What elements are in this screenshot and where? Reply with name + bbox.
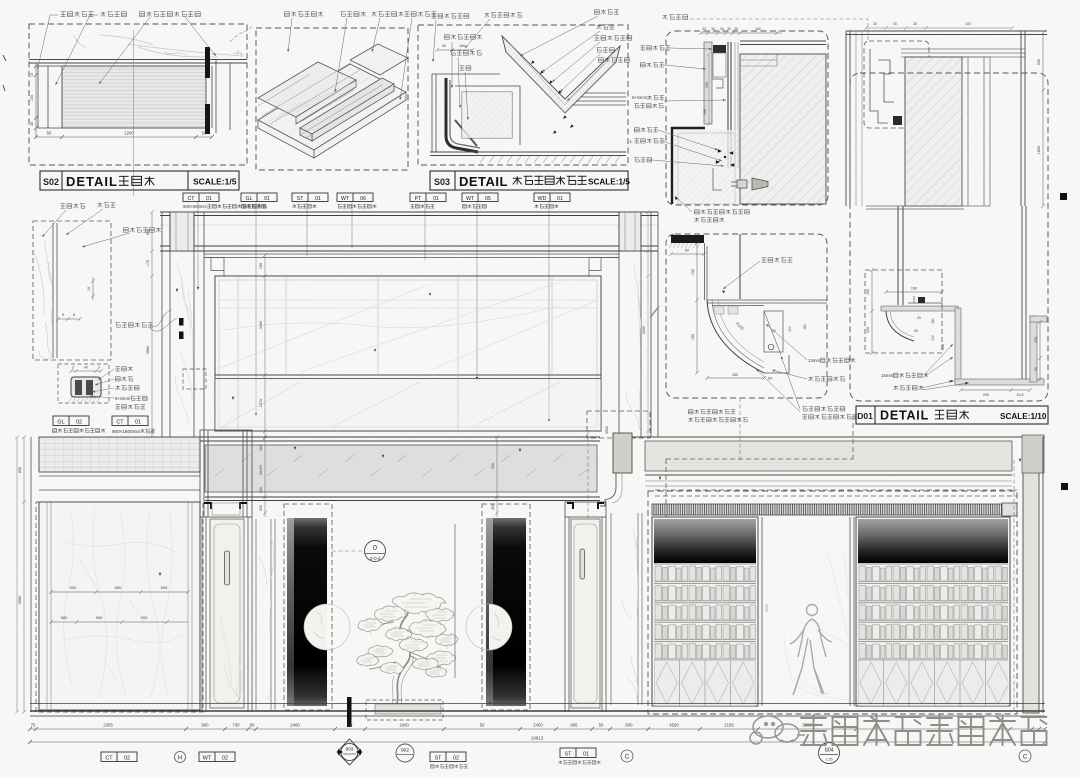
- svg-text:PT: PT: [415, 196, 422, 202]
- svg-text:S04: S04: [825, 748, 834, 754]
- S02 bottom dim line: [34, 135, 214, 139]
- svg-text:SCALE:1/5: SCALE:1/5: [193, 177, 237, 187]
- svg-text:100: 100: [755, 27, 761, 31]
- detail B wall hatch: [905, 57, 962, 206]
- detail A bottom-left arrow: [675, 196, 678, 200]
- detail B top lines: [846, 31, 1047, 35]
- svg-text:900: 900: [141, 615, 148, 620]
- svg-text:30: 30: [720, 27, 724, 31]
- svg-text:01: 01: [315, 196, 321, 202]
- left marble wall dims: [49, 590, 190, 594]
- svg-text:30: 30: [893, 22, 897, 26]
- section cut bar: [347, 697, 352, 727]
- svg-text:300: 300: [491, 463, 495, 469]
- glass channel hatch below: [69, 397, 100, 402]
- S03 label b: [485, 13, 522, 18]
- svg-text:CT: CT: [188, 196, 196, 202]
- svg-text:50: 50: [47, 131, 52, 136]
- bottom dim row 2: [28, 740, 1047, 744]
- D01L wall joint line: [739, 234, 741, 299]
- S03 label concrete: [599, 58, 630, 63]
- elevation right pilaster: [619, 212, 658, 437]
- svg-text:2450: 2450: [533, 723, 543, 728]
- svg-text:100: 100: [788, 326, 792, 332]
- beam dim chain: [263, 435, 267, 517]
- D01R shelf band: [881, 306, 958, 311]
- svg-text:900: 900: [201, 723, 209, 728]
- isometric slab main: [258, 64, 406, 158]
- svg-text:WT: WT: [466, 196, 475, 202]
- S03 label waterproof: [445, 35, 482, 40]
- detail A screws: [718, 149, 722, 152]
- tag GL01: [241, 193, 277, 202]
- detail B right column: [962, 57, 990, 206]
- S02 ceiling double line: [29, 60, 247, 64]
- svg-text:150: 150: [691, 269, 695, 275]
- svg-text:100: 100: [931, 335, 935, 341]
- elevation lower stone band: [215, 379, 601, 432]
- detail A glass lines: [728, 42, 731, 168]
- svg-text:180: 180: [803, 324, 807, 330]
- D01L label wood keel: [762, 258, 793, 263]
- elevation left dim chain: [150, 210, 154, 437]
- tag WT02: [199, 752, 235, 762]
- D01R vertical band: [955, 308, 961, 382]
- S03 label mortar: [595, 36, 632, 41]
- S02 label dark stone honed: [140, 12, 201, 17]
- svg-text:WT: WT: [341, 196, 350, 202]
- door2 handle: [580, 549, 585, 579]
- detail B right wall lines: [1021, 31, 1025, 206]
- svg-text:19613: 19613: [531, 736, 544, 741]
- iso label 3: [372, 12, 404, 17]
- elevation left pilaster: [162, 212, 204, 437]
- svg-text:180: 180: [931, 318, 935, 324]
- marker S04: [819, 743, 840, 764]
- svg-text:60: 60: [768, 377, 772, 381]
- D01L small hatch boxes: [714, 306, 738, 314]
- svg-text:600: 600: [146, 229, 150, 235]
- tag WT06: [337, 193, 373, 202]
- detail A top dim: [699, 31, 782, 35]
- svg-text:d-O-d: d-O-d: [370, 556, 381, 561]
- svg-text:02: 02: [222, 756, 228, 762]
- axis marker circle: [365, 541, 386, 562]
- bookshelf2 books: [858, 563, 1008, 660]
- elevation left pilaster cap: [170, 212, 194, 251]
- svg-text:50: 50: [348, 723, 353, 728]
- tag PT01 subtitle: [410, 204, 434, 208]
- svg-text:600: 600: [18, 467, 22, 473]
- detail A wall hatch: [740, 54, 826, 204]
- marker C left: [621, 750, 633, 762]
- person silhouette: [790, 605, 832, 696]
- svg-text:280: 280: [259, 445, 263, 451]
- tag PT01: [410, 193, 446, 202]
- detail B ceiling band: [901, 49, 1025, 57]
- S02 label light-grey stone: [61, 12, 94, 17]
- bottom dim row 1: [28, 727, 1047, 731]
- isometric surface hatch: [266, 77, 370, 123]
- D01L pencil mark: [650, 306, 659, 318]
- elevation joints: [238, 276, 552, 431]
- iso label 2: [341, 12, 366, 17]
- right top band lines: [645, 441, 1012, 471]
- S02 right jamb lines: [212, 60, 230, 133]
- right end wall: [1023, 437, 1039, 713]
- elevation section bars: [179, 318, 184, 326]
- svg-text:50: 50: [480, 723, 485, 728]
- D01L step bottom: [764, 355, 789, 373]
- svg-text:3460: 3460: [259, 321, 263, 329]
- glass channel top dim: [69, 369, 103, 373]
- svg-text:0: 0: [373, 545, 377, 552]
- svg-text:L: L: [630, 139, 633, 144]
- svg-text:05: 05: [485, 196, 491, 202]
- dark panel1: [287, 518, 327, 706]
- svg-text:10: 10: [87, 287, 91, 291]
- D01R inner dashed box: [865, 270, 942, 353]
- svg-text:3580: 3580: [18, 596, 22, 604]
- door2 panel: [571, 519, 600, 708]
- detail A step lines: [712, 79, 723, 88]
- S03 top dim: [435, 48, 474, 52]
- tag leader lines: [198, 202, 549, 418]
- wall detail dim 9 8: [56, 317, 82, 321]
- wall detail sketch: [34, 241, 53, 359]
- dark panel2: [486, 518, 526, 706]
- S03 label a: [432, 14, 469, 19]
- bookshelf1 doors: [654, 660, 756, 706]
- svg-text:30: 30: [727, 27, 731, 31]
- svg-text:1070: 1070: [259, 399, 263, 407]
- tag WT05: [462, 193, 498, 202]
- watermark logo: [750, 716, 805, 744]
- svg-text:190: 190: [911, 287, 917, 291]
- D01R right wall line: [1022, 206, 1026, 379]
- svg-text:4590: 4590: [669, 723, 679, 728]
- thin wall line: [454, 524, 456, 678]
- svg-text:900×900mm: 900×900mm: [183, 204, 207, 209]
- svg-text:3500: 3500: [605, 426, 609, 434]
- moon circle 2: [489, 604, 512, 650]
- svg-text:01: 01: [433, 196, 439, 202]
- svg-text:150: 150: [866, 289, 870, 295]
- elevation cornice step right: [589, 258, 619, 277]
- svg-text:1:25: 1:25: [826, 758, 833, 762]
- svg-text:50: 50: [202, 131, 207, 136]
- svg-text:100: 100: [866, 327, 870, 333]
- left outer dim chain: [22, 435, 26, 714]
- beam arrows: [294, 447, 297, 450]
- svg-text:6+6mm: 6+6mm: [115, 396, 131, 401]
- elevation right pilaster cap: [619, 212, 641, 251]
- wall detail label thin tile: [124, 228, 161, 233]
- svg-text:2460: 2460: [290, 723, 300, 728]
- elevation marble sketch on wall: [218, 282, 598, 372]
- S03 pool inner hatch: [462, 92, 512, 138]
- glass channel labels: [115, 367, 132, 371]
- floor lines: [30, 704, 1045, 717]
- right dashed zone: [655, 415, 1017, 517]
- svg-text:SCALE:1/5: SCALE:1/5: [588, 178, 630, 187]
- elevation dashed box: [183, 369, 206, 389]
- svg-text:900: 900: [96, 615, 103, 620]
- wall detail dim 10: [91, 277, 95, 300]
- elevation dim col right: [646, 210, 650, 437]
- svg-text:S03: S03: [434, 177, 450, 187]
- svg-text:3000: 3000: [642, 326, 646, 334]
- svg-text:C: C: [625, 755, 630, 761]
- svg-text:690: 690: [161, 585, 168, 590]
- tag ST01: [292, 193, 328, 202]
- tag CT01: [183, 193, 219, 202]
- svg-text:1200: 1200: [124, 131, 134, 136]
- D01R right niche bands: [1030, 316, 1037, 382]
- detail S03 dashed border: [418, 25, 628, 165]
- svg-text:330: 330: [259, 505, 263, 511]
- svg-text:150: 150: [732, 373, 738, 377]
- svg-text:900×1800mm: 900×1800mm: [112, 429, 140, 434]
- glass channel glass blobs: [75, 380, 82, 395]
- pine tree: [369, 604, 446, 707]
- detail A dashed rounded border: [666, 31, 828, 205]
- elevation cornice step left: [204, 258, 224, 277]
- svg-text:60: 60: [914, 329, 918, 333]
- svg-text:DETAIL: DETAIL: [66, 174, 118, 189]
- cornice section shape: [613, 433, 632, 473]
- svg-text:90: 90: [250, 723, 255, 728]
- svg-text:160: 160: [459, 44, 465, 48]
- svg-text:50: 50: [599, 723, 604, 728]
- svg-text:500: 500: [1037, 59, 1041, 65]
- glass channel dashed box: [58, 364, 109, 403]
- S03 label floor heating: [460, 66, 471, 71]
- elevation inner dim chain: [263, 253, 267, 440]
- title bar S03: [430, 171, 628, 190]
- svg-text:8: 8: [73, 313, 75, 317]
- svg-text:6+6mm: 6+6mm: [632, 95, 648, 100]
- bookshelf2 frame: [856, 517, 1010, 706]
- detail A L bracket: [713, 168, 722, 190]
- svg-text:26400: 26400: [259, 465, 263, 475]
- bookshelf1 frame: [652, 517, 758, 706]
- svg-text:C: C: [1023, 755, 1028, 761]
- detail B inner dashed box: [864, 41, 929, 128]
- svg-text:30: 30: [734, 27, 738, 31]
- S03 trench arrows: [531, 60, 535, 64]
- isometric top small slab: [350, 44, 408, 75]
- S02 stone panel: [62, 66, 206, 128]
- D01L hanger lines: [705, 243, 708, 300]
- left marble wall: [39, 502, 200, 710]
- S03 base hatch marks: [480, 156, 620, 163]
- D01R wall studs: [898, 206, 903, 305]
- svg-text:DETAIL: DETAIL: [880, 409, 929, 423]
- D01R cove arcs: [886, 311, 914, 341]
- svg-text:30: 30: [702, 27, 706, 31]
- elevation dashed box right: [587, 411, 650, 438]
- isometric slab upper: [258, 62, 356, 124]
- svg-text:ST: ST: [565, 752, 573, 758]
- left pilaster cap bottom: [200, 430, 252, 517]
- S03 waterproof membrane thick: [446, 78, 478, 152]
- marker 902: [396, 744, 414, 762]
- D01L label white paint: [802, 407, 844, 411]
- beam dim chain 2: [495, 435, 499, 517]
- svg-text:150: 150: [1034, 337, 1038, 343]
- title bar S02: [40, 171, 239, 190]
- svg-text:200: 200: [941, 344, 945, 350]
- svg-text:SCALE:1/10: SCALE:1/10: [1000, 412, 1047, 421]
- svg-text:15mm: 15mm: [881, 373, 894, 378]
- threshold dashed box: [366, 700, 443, 720]
- left pilaster brackets: [204, 503, 247, 509]
- svg-text:150: 150: [705, 82, 709, 88]
- detail A silicone label: [663, 15, 688, 20]
- stone strip left of dark panel: [256, 519, 275, 710]
- left wall dashed border: [36, 502, 203, 712]
- stone strip right: [611, 513, 642, 705]
- svg-text:S02: S02: [43, 177, 59, 187]
- detail A labels left: [640, 46, 670, 50]
- svg-text:01: 01: [264, 196, 270, 202]
- svg-text:3: 3: [98, 366, 100, 370]
- wall detail label building wall: [61, 204, 85, 209]
- detail A ceiling lines: [740, 41, 826, 45]
- tag ST02: [430, 752, 466, 762]
- edge print mark bottom: [1061, 483, 1068, 490]
- svg-text:150: 150: [691, 334, 695, 340]
- svg-text:30: 30: [442, 44, 446, 48]
- wall detail layer lines: [53, 223, 57, 358]
- svg-text:ST: ST: [435, 756, 443, 762]
- svg-text:165: 165: [259, 263, 263, 269]
- isometric detail dashed border: [256, 28, 408, 170]
- iso label 4: [405, 12, 437, 17]
- detail B wall studs: [846, 31, 850, 206]
- svg-text:730: 730: [232, 723, 240, 728]
- detail S02 dashed border: [29, 24, 247, 165]
- elevation wall outline: [215, 276, 601, 431]
- svg-text:900: 900: [115, 585, 122, 590]
- tag CT02: [101, 752, 137, 762]
- tag GL01 subtitle: [241, 204, 265, 208]
- grille band: [652, 504, 1002, 515]
- elevation glass band lines: [215, 375, 601, 379]
- D01L dashed rounded border: [666, 234, 827, 398]
- detail A anchor bolt: [731, 178, 768, 190]
- svg-text:01: 01: [135, 420, 141, 426]
- left margin marks: [3, 55, 6, 91]
- isometric extra edges: [258, 62, 388, 138]
- svg-text:600: 600: [625, 723, 633, 728]
- bookshelf2 doors: [858, 660, 1008, 706]
- detail A stone band: [704, 42, 712, 124]
- glass channel body: [71, 377, 101, 397]
- door1 handle: [225, 551, 230, 585]
- S03 V trench band: [502, 36, 620, 113]
- S03 label drain pipe: [451, 51, 482, 56]
- detail B right dim chain: [1041, 31, 1045, 208]
- svg-text:903: 903: [346, 747, 354, 752]
- svg-text:WD: WD: [538, 196, 547, 202]
- svg-text:75: 75: [31, 723, 36, 728]
- svg-text:2165: 2165: [724, 723, 734, 728]
- S03 base double line: [430, 152, 626, 156]
- detail A LED strip: [713, 45, 726, 53]
- S03 label dark stone: [595, 10, 619, 15]
- D01L dims: [669, 252, 706, 256]
- S02 marble sketch top: [74, 35, 243, 57]
- door2 jambs: [565, 517, 606, 712]
- elevation top slab: [160, 212, 658, 251]
- S02 left vertical dim: [34, 63, 38, 137]
- svg-text:60: 60: [685, 249, 689, 253]
- detail A bottom label: [694, 210, 749, 214]
- svg-text:905: 905: [570, 723, 578, 728]
- svg-text:2305: 2305: [103, 723, 113, 728]
- svg-text:3: 3: [72, 366, 74, 370]
- S03 right layer lines: [572, 93, 626, 105]
- svg-text:13mm: 13mm: [808, 358, 821, 363]
- S03 label drainage: [597, 48, 615, 53]
- svg-text:40: 40: [84, 366, 88, 370]
- svg-text:D01: D01: [857, 411, 873, 421]
- S03 label antislip: [597, 25, 615, 30]
- svg-text:30: 30: [873, 22, 877, 26]
- bottom left cabinet top band: [39, 437, 200, 472]
- svg-text:02: 02: [76, 420, 82, 426]
- D01R dims: [884, 290, 944, 294]
- svg-text:01: 01: [206, 196, 212, 202]
- svg-text:1800: 1800: [1037, 146, 1041, 154]
- elevation cornice lines: [204, 254, 619, 276]
- svg-text:ST: ST: [297, 196, 304, 202]
- bottom beam: [205, 445, 597, 492]
- svg-text:WT: WT: [203, 756, 212, 762]
- svg-text:902: 902: [401, 748, 409, 754]
- tag ST01 bottom: [560, 748, 596, 758]
- tag GL02: [53, 416, 89, 426]
- svg-text:50: 50: [1034, 367, 1038, 371]
- section marker 903: [337, 739, 362, 765]
- elevation arrows: [176, 289, 179, 292]
- watermark text: [801, 715, 1047, 745]
- tag WD01 subtitle: [534, 204, 558, 208]
- D01 label above title: [688, 410, 735, 414]
- dark panel1 dashed border: [284, 504, 332, 710]
- svg-text:175: 175: [146, 260, 150, 266]
- svg-text:DETAIL: DETAIL: [459, 174, 508, 189]
- svg-text:1000: 1000: [399, 723, 409, 728]
- D01L cove arcs: [707, 300, 764, 373]
- bookshelf1 books: [654, 563, 756, 660]
- S02 left recess: [38, 66, 62, 128]
- svg-text:300: 300: [259, 487, 263, 493]
- svg-text:01: 01: [583, 752, 589, 758]
- wall detail label bonding: [98, 203, 116, 208]
- svg-text:30: 30: [711, 27, 715, 31]
- D01R bottom band: [955, 379, 1044, 385]
- svg-text:30: 30: [30, 122, 34, 126]
- svg-text:3580: 3580: [146, 346, 150, 354]
- tag ST01 subtitle: [292, 204, 316, 208]
- paper noise: [0, 0, 1, 1]
- detail A thick L stone: [672, 128, 705, 204]
- S02 label dark stone: [101, 12, 127, 17]
- dashed vertical leaders: [588, 398, 1014, 710]
